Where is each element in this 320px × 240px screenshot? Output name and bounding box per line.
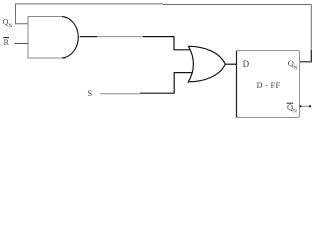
wire S to OR elbow (black)	[140, 73, 193, 94]
svg-text:S: S	[87, 88, 92, 98]
wire AND output run (gray)	[97, 36, 143, 38]
wire R input	[15, 43, 29, 45]
wire QN-bar output	[300, 105, 311, 107]
AND gate U1 arc	[62, 17, 78, 59]
node output start dot	[300, 105, 302, 107]
AND gate U1 body fill	[28, 17, 78, 59]
svg-text:R: R	[4, 38, 10, 47]
wire feedback from FF Q output (black elbow)	[299, 50, 311, 62]
node output end dot	[309, 105, 311, 107]
OR gate U2	[188, 46, 225, 82]
svg-text:D: D	[243, 59, 250, 69]
D flip-flop left edge (dark)	[236, 51, 238, 118]
AND gate U1 straight edges	[28, 17, 66, 59]
label R-bar	[3, 37, 9, 39]
wire S run (gray)	[100, 93, 140, 95]
wire AND output stub	[80, 36, 97, 38]
wire feedback QN loop left half (gray)	[16, 4, 164, 24]
D flip-flop U3	[237, 51, 300, 118]
pin label QN-bar	[287, 102, 294, 104]
svg-text:N: N	[8, 23, 12, 29]
wire OR output to D input	[225, 63, 236, 65]
svg-text:N: N	[293, 108, 297, 114]
svg-text:D - FF: D - FF	[257, 80, 281, 90]
wire feedback QN loop right half (gray)	[163, 5, 311, 51]
wire AND to OR elbow (black)	[143, 37, 191, 50]
svg-text:N: N	[293, 65, 297, 71]
